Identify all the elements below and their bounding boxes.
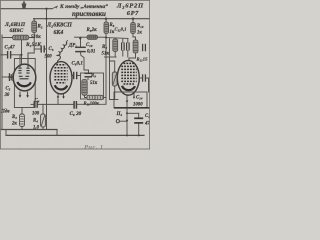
scan border frame: [0, 0, 149, 149]
shield box tube L1: [14, 59, 35, 108]
capacitor C15 electrolytic: [134, 118, 143, 123]
capacitor C6 0,1: [74, 72, 77, 79]
tube L3 cathode arc: [122, 86, 135, 90]
wire y113 to C15: [127, 112, 139, 114]
wire tube3 right cap leads: [140, 77, 142, 79]
resistor R9 51k vertical: [82, 80, 87, 96]
wire trimmer C2 leads: [2, 76, 10, 78]
wire C8 line: [37, 103, 73, 105]
wire C4 leads: [31, 103, 34, 105]
wire C3 right lead: [11, 54, 22, 56]
wire C15 bottom lead: [138, 123, 140, 135]
tube L2 top lead: [57, 61, 59, 64]
grain overlay: [0, 0, 150, 150]
capacitor tone right of tube3: [143, 74, 146, 81]
wire detector column A: [105, 34, 107, 105]
tube L2 heater arrows: [57, 96, 60, 98]
wire cap B top lead: [127, 39, 129, 43]
capacitor C2 trimmer: [8, 73, 14, 81]
arrowhead antenna text: [55, 6, 58, 8]
tube L1 cathode arc: [17, 82, 31, 86]
wire choke bottom to tube2 top: [58, 60, 60, 64]
tube L3 grids: [121, 63, 136, 84]
wire R1 bottom tap down to tube grid: [21, 41, 23, 68]
ground bus lower: [6, 134, 144, 136]
resistor R2 510k vertical: [32, 21, 37, 33]
wire R10 to R11: [133, 34, 136, 41]
wire R9b top stub: [114, 38, 116, 40]
blotch overlay: [0, 0, 150, 150]
wire R2 bottom to grid link: [28, 33, 34, 67]
capacitor grid cap above R9: [85, 73, 93, 77]
wire jog to grid cap: [84, 70, 89, 72]
paper background: [0, 0, 150, 150]
wire R2 drop from rail2 left end: [33, 19, 36, 21]
tube L2 grids: [54, 65, 67, 83]
resistor R12 vertical: [112, 72, 117, 86]
wire C3 left lead: [0, 54, 7, 56]
wire P4 link: [119, 120, 127, 122]
resistor R9b vertical: [113, 39, 118, 52]
capacitor C5 500: [41, 46, 44, 53]
wire antenna rail top: [0, 8, 52, 10]
choke Dr1: [57, 42, 66, 60]
wire cap A top lead: [122, 39, 124, 43]
tube L3 envelope: [117, 60, 139, 95]
resistor R10b 1k vertical: [131, 23, 136, 34]
wire left edge vertical down: [1, 36, 3, 130]
wire tube3 plate stub: [128, 58, 130, 62]
tube L1 envelope: [13, 64, 36, 91]
tube L2 envelope: [50, 62, 72, 94]
wire B+ rail y18.7: [34, 18, 150, 20]
wire C6 right lead: [77, 75, 80, 77]
ground bus upper-left: [0, 129, 57, 131]
wire C5 left lead to R2 column: [34, 48, 40, 50]
resistor R8 1k vertical: [104, 22, 109, 34]
wire C15 top lead: [138, 113, 140, 118]
terminal P4 circle: [116, 120, 119, 123]
shield box around R9: [81, 73, 104, 99]
capacitor C10 0,01: [75, 47, 86, 51]
capacitor C4 100: [34, 101, 37, 108]
wire C10 column: [80, 37, 82, 46]
junction dots: [20, 8, 139, 137]
resistor R11 vertical: [133, 40, 138, 53]
wire R3 leads: [21, 108, 23, 115]
resistor R6 2k horizontal: [87, 35, 98, 39]
tube L1 heater arrows: [20, 92, 28, 97]
wire R9 bottom to R10h: [85, 95, 88, 97]
capacitor right of R11: [143, 44, 146, 52]
wire cap A stub: [122, 51, 124, 57]
wire detector column B: [109, 39, 111, 100]
wire vertical from rail1 x46.5 down to C5: [46, 9, 48, 130]
wire R9b bottom stub: [114, 52, 116, 58]
wire bus link mid: [56, 130, 58, 136]
tube L2 cathode arc: [55, 85, 67, 89]
resistor R4 1,0 vertical: [41, 114, 46, 127]
resistor R1 51K horizontal: [13, 35, 29, 40]
wire R10 top lead: [132, 19, 134, 23]
wire R4 bottom lead: [42, 127, 44, 130]
wire R1 right lead: [29, 37, 34, 39]
resistor R10 100k horizontal: [87, 95, 103, 99]
output box under tube L3: [114, 92, 147, 108]
wire C6 left lead: [72, 75, 73, 77]
wire tube3 cathode down: [126, 92, 128, 135]
wire R12 bottom: [110, 86, 115, 100]
wire choke top stub: [66, 41, 67, 43]
tube L2 heater leads and cathode wire: [57, 93, 59, 98]
tube L1 electrodes: [18, 66, 29, 79]
wire AGC line y38: [75, 36, 88, 38]
wire cap B stub: [127, 51, 129, 58]
wire bus link left: [5, 130, 7, 136]
resistor R3 2k vertical: [20, 114, 25, 127]
wire R11 bottom stub: [129, 53, 136, 58]
wire grid cap to R9: [87, 78, 89, 79]
capacitor det B: [127, 43, 130, 51]
cathode arrow in box: [126, 101, 129, 104]
wire arrow to antenna jack: [52, 6, 58, 9]
wire C5 right lead: [44, 48, 46, 50]
wire R10h right lead: [103, 97, 106, 99]
capacitor det A: [122, 43, 125, 51]
wire R1 left lead to edge: [2, 35, 13, 38]
antenna plug symbol: [22, 3, 27, 8]
capacitor C8 20: [74, 101, 76, 109]
wire y99.5 to tube3: [110, 99, 119, 101]
wire screen row y57: [105, 56, 117, 58]
wire R8 top lead: [105, 19, 107, 22]
capacitor C3 47: [8, 51, 11, 59]
wire y61 link to R12: [110, 61, 115, 72]
tube L1 top leads: [20, 53, 28, 68]
